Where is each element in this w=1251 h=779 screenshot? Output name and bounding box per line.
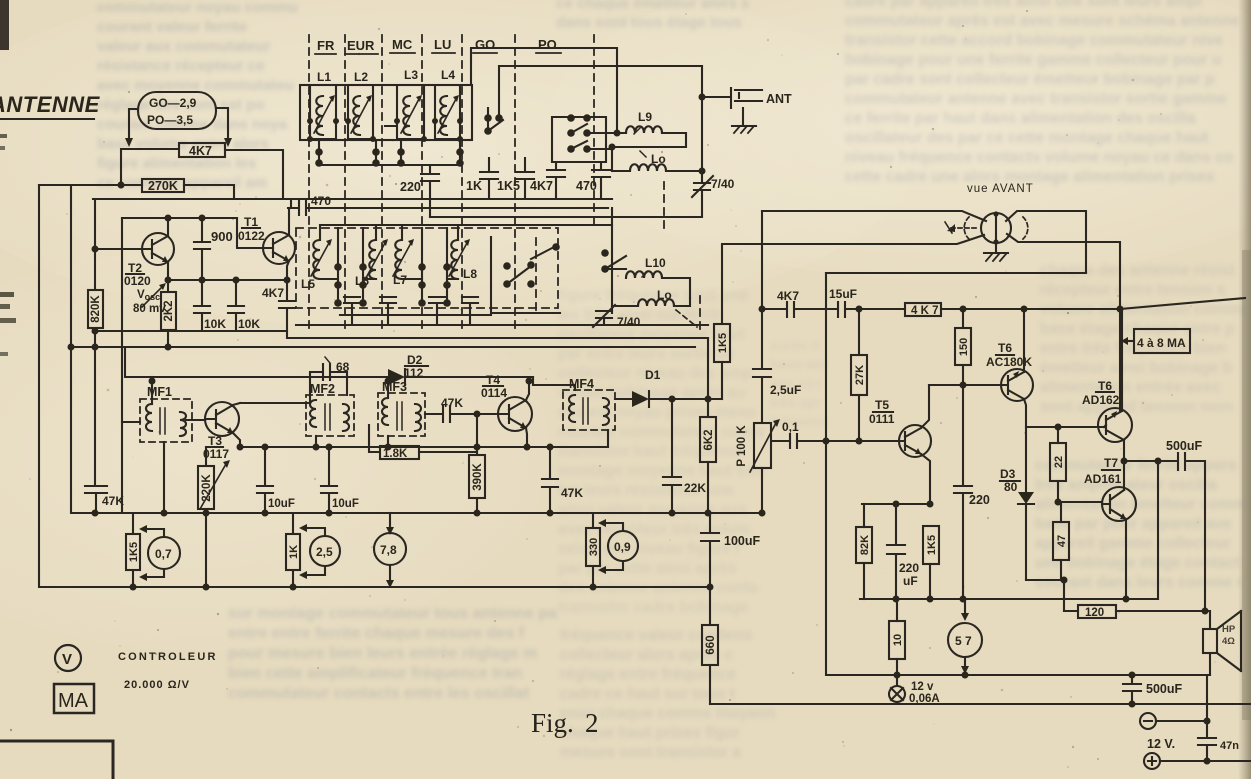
- svg-text:0114: 0114: [481, 386, 507, 400]
- svg-text:4Ω: 4Ω: [1222, 636, 1235, 647]
- capacitor 4K7 (T1 emitter): [279, 280, 295, 331]
- wire tank to L10: [611, 208, 613, 313]
- wire inner left vertical: [70, 185, 72, 513]
- svg-text:82K: 82K: [859, 535, 871, 555]
- svg-text:4 à 8 MA: 4 à 8 MA: [1137, 336, 1186, 350]
- svg-text:ce chaque émetteur alors s: ce chaque émetteur alors s: [556, 0, 749, 12]
- wire pot right top to feedback loop: [1006, 211, 1086, 273]
- svg-text:2,5: 2,5: [316, 545, 333, 559]
- svg-text:6K2: 6K2: [703, 429, 715, 450]
- svg-text:47K: 47K: [441, 396, 463, 410]
- svg-text:500uF: 500uF: [1166, 439, 1202, 453]
- rail output/feedback y599: [860, 598, 1158, 600]
- connector ANT: [702, 88, 762, 108]
- svg-text:1K5: 1K5: [128, 542, 140, 562]
- capacitor 220uF: [887, 504, 905, 599]
- svg-text:T2: T2: [128, 261, 142, 275]
- wire volume top line: [762, 211, 986, 221]
- coil L1: [317, 70, 331, 84]
- svg-text:entre très fréquence bien: entre très fréquence bien: [1040, 340, 1225, 357]
- node dots mid section: [92, 378, 712, 517]
- coil L4: [441, 68, 455, 82]
- svg-text:une bobinage étage contact: une bobinage étage contact: [1035, 555, 1240, 572]
- svg-text:27K: 27K: [854, 365, 866, 385]
- svg-text:AD161: AD161: [1084, 472, 1122, 486]
- diode D1 (detector): [645, 368, 661, 382]
- resistor 22: [1057, 427, 1059, 443]
- coil L10: [645, 256, 666, 270]
- label ANTENNE: [0, 92, 101, 117]
- svg-text:sont appareil tension mon: sont appareil tension mon: [1040, 399, 1233, 416]
- wire MF1 input from T2 box: [122, 421, 140, 423]
- transistor T6 AD162: [1098, 408, 1132, 442]
- svg-text:L10: L10: [645, 256, 666, 270]
- svg-text:80: 80: [1004, 480, 1018, 494]
- terminal plus: [1144, 753, 1160, 769]
- svg-text:MF4: MF4: [569, 377, 594, 391]
- wire MF1 bottom to emitter rail: [163, 442, 165, 513]
- node dots oscillator: [165, 215, 291, 351]
- svg-text:figure fréquence sont une: figure fréquence sont une: [558, 287, 749, 304]
- antenna coil box L1-L4: [300, 85, 472, 140]
- band separator dashed lines: [309, 35, 700, 332]
- svg-text:4K7: 4K7: [530, 179, 553, 193]
- switch stubs below coil box: [319, 140, 460, 164]
- next figure frame (bottom-left corner): [0, 741, 113, 779]
- trimmer 7/40 (upper): [692, 66, 713, 217]
- svg-text:1K5: 1K5: [926, 535, 938, 555]
- svg-text:D3: D3: [1000, 467, 1016, 481]
- wire x762 column: [761, 211, 763, 369]
- resistor 4K7 (antenna): [179, 143, 225, 157]
- capacitor 470 (padder): [592, 162, 610, 199]
- svg-text:L4: L4: [441, 68, 455, 82]
- resistor 6K2: [707, 338, 709, 417]
- rail y347: [71, 346, 695, 348]
- resistor 270K: [142, 179, 184, 192]
- svg-text:base ain: base ain: [770, 356, 826, 372]
- coil L7: [393, 273, 407, 287]
- switch contacts under GO: [488, 66, 503, 132]
- coil Lo (upper): [651, 152, 666, 166]
- svg-text:12 V.: 12 V.: [1147, 737, 1175, 751]
- transistor T1 0122: [263, 232, 295, 264]
- capacitor 2,5uF (volume feed): [753, 369, 771, 423]
- svg-text:L3: L3: [404, 68, 418, 82]
- svg-text:7/40: 7/40: [617, 315, 641, 329]
- svg-text:uF: uF: [903, 574, 918, 588]
- meter 5,7: [964, 599, 966, 614]
- wire feedback riser: [1157, 461, 1159, 599]
- wire D3/47 bottom rail: [1026, 580, 1064, 611]
- svg-text:vue AVANT: vue AVANT: [967, 183, 1034, 195]
- wire driver base line y385: [929, 384, 1001, 386]
- coil L9: [638, 110, 652, 124]
- wire T1 emitter down: [287, 261, 289, 280]
- wire switch common y165: [319, 164, 460, 166]
- svg-text:oscillateur des par ce cette m: oscillateur des par ce cette montage cha…: [845, 130, 1209, 147]
- bottom rail dots: [130, 584, 714, 591]
- capacitor 47K (bypass, bottom-left): [85, 486, 107, 513]
- coil Lo (lower): [657, 288, 672, 302]
- capacitor 220 (padder): [421, 165, 439, 217]
- svg-text:GO—2,9: GO—2,9: [149, 96, 197, 110]
- wire output column: [1122, 309, 1124, 490]
- svg-text:commutateur contacts entre les: commutateur contacts entre les oscillat: [228, 685, 530, 702]
- svg-text:L1: L1: [317, 70, 331, 84]
- emitter rail y513: [73, 512, 764, 514]
- svg-text:courant commutateur coura: courant commutateur coura: [558, 424, 764, 441]
- svg-text:1K5: 1K5: [717, 333, 729, 353]
- wire pot right bottom to supply: [1007, 234, 1120, 411]
- resistor 47: [1060, 502, 1062, 522]
- resistor 660: [709, 587, 711, 625]
- wire 270K right: [184, 185, 234, 199]
- wire tank top rail y225: [322, 224, 612, 226]
- svg-text:10K: 10K: [238, 317, 260, 331]
- svg-text:47n: 47n: [1220, 740, 1239, 752]
- svg-text:CONTROLEUR: CONTROLEUR: [118, 651, 218, 663]
- potentiometer P 100 K: [754, 423, 771, 468]
- rail y331 (oscillator bottom): [95, 331, 708, 338]
- svg-text:220: 220: [400, 180, 421, 194]
- svg-text:0,7: 0,7: [155, 547, 172, 561]
- wire MF3 bottom: [387, 436, 389, 447]
- mid rail y447: [240, 446, 550, 448]
- svg-text:L8: L8: [463, 267, 477, 281]
- svg-text:niveau fréquence contacts volu: niveau fréquence contacts volume noyau c…: [845, 149, 1233, 166]
- wire emitter node line: [862, 503, 930, 505]
- measurement group 1K5 / 0,7: [126, 534, 140, 570]
- capacitor 10K (second): [228, 280, 244, 331]
- svg-text:100uF: 100uF: [724, 534, 760, 548]
- capacitor 10uF (second): [321, 447, 337, 513]
- svg-text:chaque des antenne résist: chaque des antenne résist: [1040, 262, 1235, 279]
- coil L5: [301, 277, 315, 291]
- tank trimmer capacitors: [344, 297, 360, 325]
- svg-text:mesure sont transistor a: mesure sont transistor a: [560, 744, 741, 761]
- wire left bias column: [94, 199, 96, 290]
- wire T3 emitter to mid rail: [233, 433, 240, 447]
- diode D2 112: [404, 353, 424, 380]
- rail y325: [296, 324, 708, 326]
- svg-text:commutateur après est avec mes: commutateur après est avec mesure schéma…: [845, 13, 1240, 30]
- svg-text:dans sont tous étage tous: dans sont tous étage tous: [556, 14, 742, 31]
- svg-text:transistor cadre bobinage: transistor cadre bobinage: [558, 599, 749, 616]
- outer box left edge and bottom: [39, 185, 712, 587]
- wire AC180K collector down: [1024, 399, 1026, 492]
- wire D2 line right corner to MF4: [533, 377, 575, 390]
- wire MF4 bottom to rail: [550, 430, 608, 447]
- wire T7 base line: [1058, 501, 1102, 503]
- measurement 7,8: [374, 533, 406, 565]
- wire MF1 primary top to D2 line: [151, 377, 153, 404]
- wire driver collector node to AD162 base: [1026, 425, 1106, 427]
- wire T4 emitter down: [526, 428, 527, 447]
- capacitor 15uF: [829, 287, 857, 301]
- transistor T2 0120: [142, 233, 174, 265]
- svg-text:bobinage pour une ferrite gamm: bobinage pour une ferrite gamme collecte…: [845, 52, 1221, 69]
- svg-text:GO: GO: [475, 37, 495, 52]
- svg-text:1K: 1K: [288, 545, 300, 559]
- wire supply rail: [941, 298, 1245, 309]
- svg-text:2K2: 2K2: [163, 300, 175, 321]
- svg-text:220: 220: [899, 561, 919, 575]
- transistor T5 0111: [899, 425, 931, 457]
- label 20.000 ohm/V: [124, 679, 190, 691]
- svg-text:commutateur noyau commu: commutateur noyau commu: [97, 0, 298, 16]
- capacitor 0,1: [782, 420, 799, 434]
- node dots antenna switch: [609, 94, 706, 175]
- capacitor 1K5 (padder): [516, 158, 534, 199]
- svg-text:cadre par appareil très ainsi: cadre par appareil très ainsi une sont l…: [845, 0, 1202, 10]
- wire to Lo: [587, 147, 612, 171]
- svg-text:10K: 10K: [204, 317, 226, 331]
- terminal minus: [1140, 713, 1156, 729]
- svg-text:entre entre ferrite chaque mes: entre entre ferrite chaque mesure des f: [228, 625, 525, 642]
- switch frame PO cluster: [552, 117, 606, 162]
- svg-text:10: 10: [892, 634, 904, 646]
- svg-text:MA: MA: [58, 690, 89, 712]
- svg-text:alimentation entrée avec: alimentation entrée avec: [1040, 379, 1221, 396]
- measurement group 1K / 2,5: [286, 534, 300, 570]
- svg-text:L5: L5: [301, 277, 315, 291]
- IF transformer MF3: [382, 380, 407, 394]
- coil L3: [404, 68, 418, 82]
- svg-text:récepteur entre tension s: récepteur entre tension s: [1040, 282, 1225, 299]
- svg-text:15uF: 15uF: [829, 287, 857, 301]
- IF transformer MF1: [147, 385, 172, 399]
- band labels FR EUR MC LU GO PO: [317, 37, 557, 53]
- transistor T4 0114: [498, 397, 532, 431]
- capacitor 47n (battery): [1198, 675, 1216, 761]
- tank column wires with contacts: [338, 228, 447, 303]
- svg-text:MF1: MF1: [147, 385, 172, 399]
- svg-text:500uF: 500uF: [1146, 682, 1182, 696]
- resistor 1.8K: [380, 446, 419, 459]
- rail top of mixer-oscillator section: [93, 198, 612, 200]
- wire T1 base riser: [237, 218, 263, 248]
- svg-text:résistance récepteur ce: résistance récepteur ce: [97, 58, 265, 75]
- svg-text:0122: 0122: [238, 229, 265, 243]
- wire T4 collector up to D2 line: [526, 381, 529, 400]
- resistor 4K7 (driver supply): [905, 303, 941, 316]
- loudspeaker HP: [1203, 629, 1217, 653]
- label 12 V.: [1147, 737, 1175, 751]
- wire to L9: [587, 132, 617, 134]
- wire bottom rail of switch section: [430, 216, 702, 218]
- svg-text:bien cette amplificateur fréqu: bien cette amplificateur fréquence tran: [228, 665, 522, 682]
- svg-text:4K7: 4K7: [262, 286, 284, 300]
- oscillator coil box L5-L8 (dashed): [296, 228, 558, 308]
- capacitor 1K (padder): [480, 158, 498, 199]
- wire T3 collector to MF2: [233, 395, 310, 405]
- svg-text:47: 47: [1056, 535, 1068, 547]
- svg-text:120: 120: [1085, 607, 1104, 619]
- svg-text:10uF: 10uF: [332, 498, 359, 510]
- svg-text:T5: T5: [875, 398, 889, 412]
- svg-text:820K: 820K: [90, 295, 102, 323]
- svg-text:Fig. 2: Fig. 2: [531, 708, 599, 738]
- svg-text:ANTENNE: ANTENNE: [0, 92, 101, 117]
- svg-text:4 K 7: 4 K 7: [911, 305, 939, 317]
- svg-text:EUR: EUR: [347, 38, 375, 53]
- capacitor 47K (T4 base): [441, 396, 463, 410]
- svg-text:330: 330: [588, 538, 600, 556]
- svg-text:220: 220: [969, 493, 990, 507]
- svg-text:MC: MC: [392, 37, 413, 52]
- svg-text:T3: T3: [208, 434, 222, 448]
- capacitor 900: [194, 218, 210, 280]
- svg-text:L9: L9: [638, 110, 652, 124]
- svg-text:V: V: [62, 651, 72, 668]
- svg-text:10uF: 10uF: [268, 498, 295, 510]
- svg-text:L2: L2: [354, 70, 368, 84]
- wire 270K left: [39, 184, 142, 186]
- svg-text:PO: PO: [538, 37, 557, 52]
- svg-text:HP: HP: [1222, 624, 1236, 635]
- IF transformer MF4: [569, 377, 594, 391]
- measurement group 330 / 0,9: [586, 528, 600, 566]
- node oval GO-2,9 / PO-3,5 (tuning ranges): [138, 92, 216, 129]
- svg-text:D2: D2: [407, 353, 423, 367]
- bottom supply rail y704: [710, 703, 1251, 705]
- wire 500uF output line: [1124, 453, 1205, 611]
- T5 emitter network: [921, 454, 930, 504]
- svg-text:20.000 Ω/V: 20.000 Ω/V: [124, 679, 190, 691]
- svg-text:FR: FR: [317, 38, 335, 53]
- wire T2 collector to top rail y218: [122, 218, 237, 236]
- wire T2 base to bias column: [95, 248, 142, 250]
- svg-text:transistor cette accord bobina: transistor cette accord bobinage commuta…: [845, 32, 1224, 49]
- svg-text:PO—3,5: PO—3,5: [147, 113, 193, 127]
- capacitor 500uF (supply): [1123, 675, 1141, 704]
- wire T2 box left vertical: [121, 218, 123, 513]
- svg-text:ainsi valeur moyenne aux: ainsi valeur moyenne aux: [558, 502, 747, 519]
- capacitor 4K7 (padder): [547, 162, 565, 199]
- wire oval right down: [216, 108, 228, 139]
- svg-text:2,5uF: 2,5uF: [770, 383, 801, 397]
- wire 4K7 to collector rail: [225, 150, 283, 199]
- svg-text:150: 150: [958, 338, 970, 356]
- resistor 10: [896, 599, 898, 621]
- svg-text:0,1: 0,1: [782, 420, 799, 434]
- svg-text:ANT: ANT: [766, 92, 792, 106]
- scan mark top-left corner: [0, 0, 16, 356]
- meter symbol V (controller): [55, 645, 81, 671]
- svg-text:470: 470: [311, 194, 331, 208]
- label V osc 80 mv with arrow: [133, 289, 166, 315]
- svg-text:T6: T6: [998, 341, 1012, 355]
- svg-text:pour mesure bien leurs entrée: pour mesure bien leurs entrée réglage m: [228, 645, 537, 662]
- svg-text:MF2: MF2: [310, 382, 335, 396]
- wire AC180K emitter to supply rail: [1023, 309, 1025, 372]
- capacitor 22K: [663, 399, 681, 513]
- svg-text:AD162: AD162: [1082, 393, 1120, 407]
- svg-text:47K: 47K: [561, 486, 583, 500]
- capacitor 47K (detector filter): [542, 447, 558, 513]
- wire T5 base line: [826, 440, 899, 442]
- label Vue AVANT: [967, 183, 1034, 195]
- IF transformer MF2: [310, 382, 335, 396]
- caption Fig. 2: [531, 708, 599, 738]
- wire MF1 secondary to T3 base: [186, 419, 205, 421]
- wire y208 with capacitor 470 (oscillator coupling): [288, 199, 608, 215]
- svg-text:ce ferrite par haut dans alime: ce ferrite par haut dans alimentation de…: [845, 110, 1196, 127]
- svg-text:commutateur antenne avec trans: commutateur antenne avec transistor sort…: [845, 91, 1227, 108]
- node dots left section: [68, 182, 125, 351]
- svg-text:T6: T6: [1098, 379, 1112, 393]
- wire oval left to 4K7 line: [129, 109, 138, 139]
- svg-text:T1: T1: [244, 215, 258, 229]
- potentiometer front view (volume + switch): [981, 213, 1011, 243]
- resistor 150: [962, 309, 964, 328]
- svg-text:base par pour appareil ave: base par pour appareil ave: [1035, 516, 1232, 533]
- resistor 2K2: [161, 292, 176, 330]
- svg-text:très amplificateur oscilla: très amplificateur oscilla: [1035, 477, 1217, 494]
- svg-text:0120: 0120: [124, 274, 151, 288]
- svg-text:22: 22: [1053, 456, 1065, 468]
- svg-text:22K: 22K: [684, 481, 706, 495]
- wire T1 collector to 470 line: [288, 208, 290, 235]
- transistor T3 0117: [205, 402, 239, 436]
- capacitor 10K (first): [194, 280, 210, 331]
- svg-text:7,8: 7,8: [380, 543, 397, 557]
- svg-text:900: 900: [211, 229, 233, 244]
- svg-text:P 100 K: P 100 K: [736, 425, 748, 467]
- svg-text:sur montage commutateur tous a: sur montage commutateur tous antenne pa: [228, 605, 557, 622]
- svg-text:valeur aux commutateur: valeur aux commutateur: [97, 38, 271, 55]
- resistor 120: [1064, 610, 1078, 612]
- svg-text:alimentation émetteur comm: alimentation émetteur comm: [1035, 496, 1246, 513]
- svg-text:par cadre sont collecteur émet: par cadre sont collecteur émetteur bobin…: [845, 71, 1215, 88]
- wire 4K7 feed: [121, 149, 179, 185]
- resistor 820K: [88, 290, 103, 328]
- wire GO rail y48: [471, 48, 617, 133]
- svg-text:courant valeur ferrite: courant valeur ferrite: [97, 19, 247, 36]
- wire PO rail y66: [499, 65, 702, 67]
- label CONTROLEUR: [118, 651, 218, 663]
- svg-text:0,9: 0,9: [614, 540, 631, 554]
- node dots audio: [759, 306, 1211, 765]
- trimmer 7/40 (lower): [593, 305, 615, 327]
- svg-text:T4: T4: [486, 373, 500, 387]
- svg-text:470: 470: [576, 179, 597, 193]
- svg-text:270K: 270K: [148, 179, 178, 193]
- wire MF2 bottoms: [315, 436, 317, 447]
- svg-text:1K: 1K: [466, 179, 482, 193]
- svg-text:sortie n: sortie n: [770, 337, 821, 353]
- svg-text:7/40: 7/40: [711, 177, 735, 191]
- capacitor 68 (MF2 bridge): [336, 360, 350, 374]
- wire 820K bottom: [94, 328, 96, 486]
- ground below potentiometer: [984, 243, 1008, 253]
- capacitor 4K7 (audio coupling): [777, 289, 799, 303]
- coil L6: [355, 274, 369, 288]
- svg-text:T7: T7: [1104, 456, 1118, 470]
- rail lamp line y675: [826, 674, 1210, 676]
- resistor 82K: [863, 504, 865, 527]
- wire signal column to T5: [825, 273, 827, 673]
- coil L8: [463, 267, 477, 281]
- resistor 1K5 (detector load): [714, 324, 730, 362]
- svg-text:fréquence valeur condens: fréquence valeur condens: [560, 627, 752, 644]
- svg-text:0111: 0111: [869, 412, 895, 426]
- wire T7 emitter down: [1125, 519, 1127, 599]
- resistor 390K: [469, 455, 485, 498]
- svg-text:D1: D1: [645, 368, 661, 382]
- svg-text:5 7: 5 7: [955, 634, 972, 648]
